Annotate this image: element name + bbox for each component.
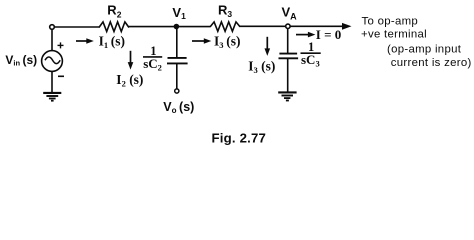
node input terminal (open circle) [50, 25, 55, 30]
svg-text:R3: R3 [218, 2, 232, 19]
svg-text:(op-amp input: (op-amp input [387, 44, 462, 56]
node VA (open circle) [286, 24, 290, 28]
wire source to ground [51, 71, 53, 92]
current arrow I3 down (right) [265, 37, 271, 56]
svg-text:I3 (s): I3 (s) [248, 58, 275, 74]
wire R2 to R3 through node V1 [129, 26, 210, 28]
note to op-amp [361, 16, 472, 69]
current arrow I2 down [128, 51, 134, 70]
fraction 1/sC3 [301, 40, 321, 69]
svg-text:+ve terminal: +ve terminal [361, 29, 427, 41]
svg-text:current is zero): current is zero) [391, 57, 472, 69]
capacitor C3 plates [279, 54, 299, 59]
ground left [43, 93, 61, 101]
node V1 (junction dot) [174, 24, 180, 30]
wire input node down to source [51, 29, 53, 50]
fraction 1/sC2 [143, 44, 162, 73]
svg-text:I = 0: I = 0 [316, 27, 341, 42]
svg-text:R2: R2 [107, 3, 121, 20]
svg-text:Vin (s): Vin (s) [5, 53, 37, 68]
svg-text:Fig. 2.77: Fig. 2.77 [212, 131, 267, 146]
resistor R2 [99, 22, 128, 32]
wire VA down to capacitor C3 [287, 26, 289, 52]
arrow I = 0 [296, 32, 315, 38]
svg-text:I2 (s): I2 (s) [116, 72, 143, 88]
sine symbol inside source [45, 57, 60, 64]
current arrow I3 top [192, 38, 211, 44]
svg-text:Vo (s): Vo (s) [163, 100, 194, 115]
svg-text:I1 (s): I1 (s) [99, 33, 125, 49]
svg-text:To op-amp: To op-amp [362, 16, 419, 28]
wire C3 to ground [287, 59, 289, 92]
output terminal Vo (open circle) [175, 89, 179, 93]
svg-text:sC2: sC2 [143, 56, 162, 72]
wire R3 to node VA [240, 25, 286, 27]
svg-text:I3 (s): I3 (s) [214, 33, 240, 49]
wire top from input node to R2 [54, 26, 99, 28]
minus sign [58, 75, 64, 77]
wire C2 to output terminal Vo [176, 64, 178, 88]
svg-text:VA: VA [282, 4, 298, 21]
plus sign [58, 42, 64, 48]
capacitor C2 plates [167, 58, 188, 64]
arrowhead to op-amp [342, 23, 352, 30]
wire V1 down to capacitor C2 [176, 27, 178, 57]
wire VA to op-amp arrow [290, 25, 344, 27]
current arrow I1 [76, 38, 94, 44]
resistor R3 [211, 22, 240, 31]
svg-text:sC3: sC3 [301, 52, 320, 68]
ground right [278, 92, 296, 100]
voltage source Vin circle [42, 51, 63, 72]
svg-text:V1: V1 [172, 5, 186, 21]
